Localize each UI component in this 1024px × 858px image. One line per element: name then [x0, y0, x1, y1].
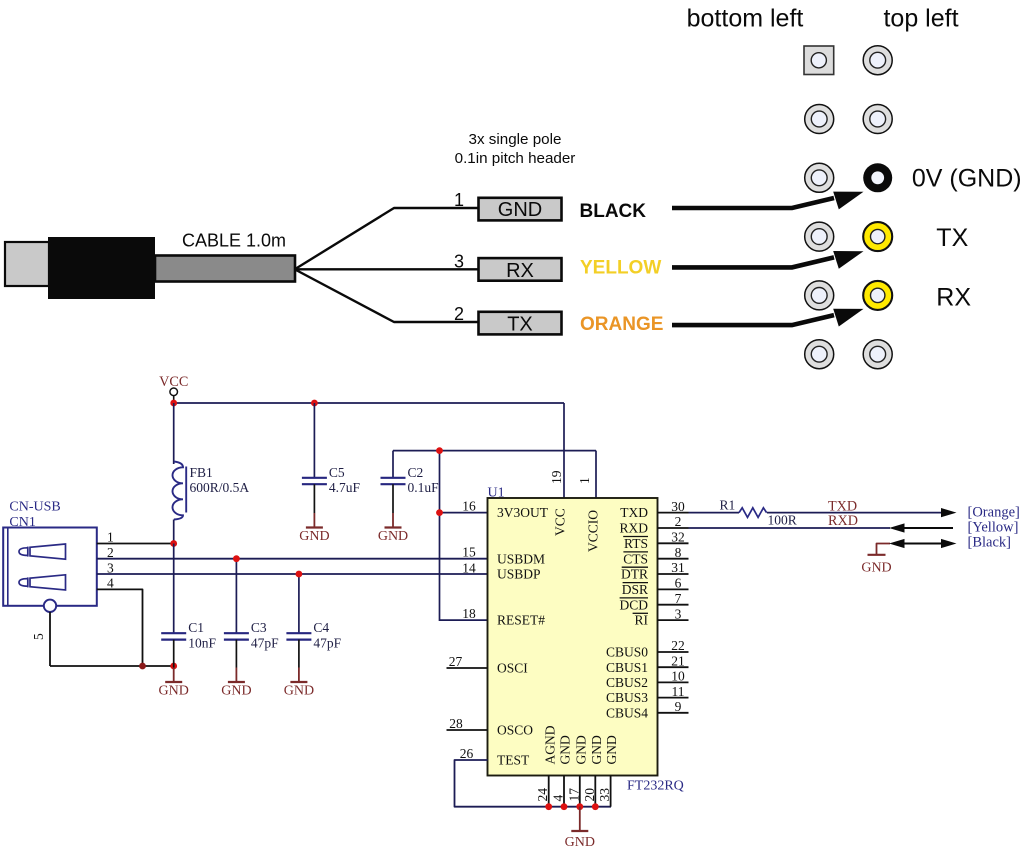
svg-text:CBUS1: CBUS1 — [606, 660, 648, 675]
svg-text:47pF: 47pF — [251, 635, 279, 650]
ground wire for [Black] — [877, 544, 891, 555]
svg-text:27: 27 — [449, 654, 463, 669]
pad bottom-left row 4 — [805, 222, 834, 251]
wire cable to header pin 2 (TX) — [296, 270, 479, 322]
pad top-left row 2 — [863, 105, 892, 134]
ground GND at U1 — [565, 807, 595, 850]
svg-text:CBUS3: CBUS3 — [606, 690, 648, 705]
junction pin4-gnd bus — [139, 663, 146, 670]
svg-text:GND: GND — [378, 529, 408, 544]
svg-text:31: 31 — [671, 560, 685, 575]
svg-text:VCCIO: VCCIO — [586, 510, 601, 552]
svg-text:GND: GND — [558, 735, 573, 764]
svg-text:GND: GND — [565, 835, 595, 850]
svg-text:1: 1 — [454, 190, 464, 210]
junction D- C3 — [233, 555, 240, 562]
power symbol VCC — [159, 374, 188, 403]
svg-text:CN-USB: CN-USB — [9, 500, 60, 515]
svg-text:U1: U1 — [488, 486, 505, 501]
U1 pin 10 stub — [658, 681, 689, 683]
svg-text:GND: GND — [159, 684, 189, 699]
wire C2 to VCCIO — [393, 450, 596, 452]
svg-text:RTS: RTS — [624, 536, 648, 551]
svg-text:10: 10 — [671, 669, 685, 684]
svg-text:CABLE 1.0m: CABLE 1.0m — [182, 231, 286, 251]
svg-text:14: 14 — [462, 560, 476, 575]
capacitor C4 — [286, 633, 311, 639]
pad bottom-left row 3 — [805, 163, 834, 192]
U1 pin 24 stub — [548, 776, 550, 807]
svg-text:GND: GND — [284, 684, 314, 699]
junction CN1 pin1 - FB1 - C1 — [170, 540, 177, 547]
svg-text:CBUS2: CBUS2 — [606, 675, 648, 690]
svg-text:RX: RX — [936, 284, 971, 312]
svg-text:OSCI: OSCI — [497, 661, 528, 676]
arrow orange wire to RX pad — [672, 309, 864, 327]
wire CN1 pin 4 down — [97, 589, 143, 666]
svg-text:C3: C3 — [251, 620, 267, 635]
junction VCC-C5 — [311, 400, 318, 407]
svg-text:600R/0.5A: 600R/0.5A — [190, 480, 250, 495]
svg-text:TX: TX — [936, 224, 968, 252]
IC U1 FT232RQ body — [488, 498, 658, 776]
svg-text:C1: C1 — [188, 620, 204, 635]
CN1 upper contact — [19, 544, 66, 559]
junction gnd bus - C1 — [170, 663, 177, 670]
svg-text:5: 5 — [31, 633, 46, 640]
svg-text:DSR: DSR — [622, 582, 648, 597]
ferrite bead FB1 — [173, 462, 187, 520]
junction 3V3OUT — [436, 509, 443, 516]
svg-text:2: 2 — [675, 514, 682, 529]
U1 pin OSCI stub — [447, 667, 488, 669]
U1 pin 7 stub — [658, 604, 689, 606]
pad 0V (GND) black — [863, 163, 892, 192]
wire ground bus CN1 — [50, 665, 174, 667]
U1 pin 20 stub — [594, 776, 596, 807]
svg-text:FB1: FB1 — [190, 465, 213, 480]
svg-text:1: 1 — [107, 530, 114, 545]
ground rail junction 17 — [576, 803, 583, 810]
svg-text:OSCO: OSCO — [497, 723, 533, 738]
svg-text:TXD: TXD — [620, 505, 648, 520]
svg-text:3V3OUT: 3V3OUT — [497, 505, 549, 520]
CN1 lower contact — [19, 575, 66, 590]
svg-text:18: 18 — [462, 606, 476, 621]
svg-text:100R: 100R — [768, 513, 797, 528]
svg-text:top left: top left — [883, 5, 958, 33]
svg-text:C4: C4 — [313, 620, 329, 635]
svg-text:RXD: RXD — [619, 521, 648, 536]
capacitor C3 — [224, 633, 249, 639]
svg-text:7: 7 — [675, 591, 682, 606]
ground GND at C5 — [299, 513, 329, 544]
svg-text:10nF: 10nF — [188, 635, 216, 650]
svg-text:RX: RX — [506, 260, 534, 282]
pad bottom-left row 2 — [805, 105, 834, 134]
header terminal RX — [479, 258, 562, 282]
svg-text:CN1: CN1 — [9, 515, 35, 530]
svg-text:AGND: AGND — [542, 725, 557, 764]
pad top-left row 6 — [863, 340, 892, 369]
svg-text:3: 3 — [107, 560, 114, 575]
wire VCCIO pin 1 drop — [595, 451, 597, 498]
header terminal TX — [479, 312, 562, 336]
U1 pin 3 stub — [658, 619, 689, 621]
svg-text:[Black]: [Black] — [968, 535, 1011, 551]
U1 pin 11 stub — [658, 697, 689, 699]
svg-text:DCD: DCD — [619, 597, 648, 612]
U1 pin 21 stub — [658, 666, 689, 668]
U1 pin 31 stub — [658, 573, 689, 575]
svg-text:RI: RI — [635, 613, 649, 628]
wire C3 to ground — [235, 640, 237, 668]
svg-text:47pF: 47pF — [313, 635, 341, 650]
wire TXD to R1 — [689, 512, 740, 514]
wire RXD — [689, 527, 891, 529]
U1 pin 32 stub — [658, 542, 689, 544]
wire VCC rail — [174, 402, 564, 404]
svg-text:RESET#: RESET# — [497, 613, 545, 628]
arrow yellow wire to TX pad — [672, 251, 864, 269]
svg-text:CBUS4: CBUS4 — [606, 705, 648, 720]
svg-text:TEST: TEST — [497, 753, 530, 768]
arrow RXD in — [889, 523, 953, 532]
wire VCC to FB1 — [173, 403, 175, 464]
connector CN1 (CN-USB) — [3, 528, 97, 606]
svg-text:TXD: TXD — [828, 499, 857, 515]
svg-text:GND: GND — [861, 561, 891, 576]
wire R1 to TXD arrow — [767, 512, 944, 514]
U1 pin 9 stub — [658, 712, 689, 714]
svg-text:1: 1 — [577, 477, 592, 484]
wire VCC pin 19 drop — [563, 403, 565, 498]
arrow black wire (bidirectional) — [889, 539, 957, 548]
U1 pin 30 stub (TXD) — [658, 512, 689, 514]
svg-text:YELLOW: YELLOW — [580, 258, 661, 279]
U1 pin name RI — [633, 613, 649, 628]
cable sheath — [155, 256, 295, 282]
svg-text:28: 28 — [449, 716, 463, 731]
wire cable to header pin 3 (RX) — [296, 268, 479, 270]
svg-text:3: 3 — [675, 606, 682, 621]
svg-text:GND: GND — [573, 735, 588, 764]
svg-text:3: 3 — [454, 251, 464, 271]
capacitor C1 — [161, 633, 186, 639]
svg-text:GND: GND — [589, 735, 604, 764]
svg-text:8: 8 — [675, 545, 682, 560]
svg-text:USBDM: USBDM — [497, 551, 545, 566]
svg-text:4.7uF: 4.7uF — [329, 480, 361, 495]
U1 pin 22 stub — [658, 651, 689, 653]
U1 pin 33 stub — [610, 776, 612, 807]
svg-text:TX: TX — [507, 314, 533, 336]
svg-text:4: 4 — [107, 576, 114, 591]
U1 pin 4 stub — [563, 776, 565, 807]
svg-text:GND: GND — [299, 529, 329, 544]
header terminal GND — [479, 198, 562, 221]
wire C2 to ground — [392, 484, 394, 513]
wire C1 lead — [173, 544, 175, 634]
svg-text:BLACK: BLACK — [580, 201, 647, 222]
svg-text:9: 9 — [675, 699, 682, 714]
svg-text:2: 2 — [107, 545, 114, 560]
U1 pin OSCO stub — [447, 729, 488, 731]
U1 pin name DCD — [619, 597, 648, 612]
pad square pin 1 bottom-left — [804, 46, 834, 75]
svg-text:0V (GND): 0V (GND) — [912, 165, 1022, 193]
U1 pin name DTR — [621, 567, 648, 582]
svg-text:15: 15 — [462, 545, 476, 560]
resistor R1 — [739, 508, 767, 518]
svg-text:30: 30 — [671, 499, 685, 514]
wire C5 to ground — [313, 484, 315, 513]
wire 3V3OUT vertical — [439, 451, 441, 621]
wire C1 to ground bus — [173, 640, 175, 668]
ground GND at C2 — [378, 513, 408, 544]
ground rail junction 4 — [561, 803, 568, 810]
svg-text:USBDP: USBDP — [497, 567, 541, 582]
svg-text:DTR: DTR — [621, 567, 648, 582]
arrow TXD out — [941, 508, 957, 517]
svg-text:16: 16 — [462, 499, 476, 514]
ground rail junction 24 — [545, 803, 552, 810]
ground GND at C3 — [221, 668, 251, 699]
wire TEST to ground rail — [455, 760, 612, 807]
wire RESET# pin 18 stub — [440, 619, 488, 621]
svg-text:R1: R1 — [720, 497, 736, 512]
capacitor C2 — [381, 478, 406, 484]
svg-text:[Yellow]: [Yellow] — [968, 520, 1019, 536]
ground GND at C4 — [284, 668, 314, 699]
svg-text:19: 19 — [549, 470, 564, 484]
svg-text:32: 32 — [671, 530, 685, 545]
CN1 shield circle pin 5 — [44, 600, 56, 612]
svg-text:C5: C5 — [329, 465, 345, 480]
pad bottom-left row 6 — [805, 340, 834, 369]
wire FB1 to CN1 pin 1 — [173, 520, 175, 544]
svg-text:CBUS0: CBUS0 — [606, 645, 648, 660]
svg-text:0.1uF: 0.1uF — [408, 480, 440, 495]
U1 pin name RTS — [623, 536, 648, 551]
svg-text:bottom left: bottom left — [687, 5, 804, 33]
wire rail to C5 — [313, 403, 315, 478]
wire C3 lead — [235, 559, 237, 634]
svg-text:26: 26 — [460, 746, 474, 761]
pad RX yellow — [863, 281, 892, 310]
U1 pin name CTS — [623, 551, 648, 566]
junction VCC-FB1 — [170, 400, 177, 407]
U1 pin 8 stub — [658, 558, 689, 560]
svg-text:GND: GND — [221, 684, 251, 699]
U1 pin 17 stub — [579, 776, 581, 807]
ground GND at C1 — [159, 668, 189, 699]
wire CN1 pin 5 down — [49, 612, 51, 666]
wire USB D+ (pin 3 to USBDP) — [97, 573, 488, 575]
capacitor C5 — [302, 478, 327, 484]
wire cable to header pin 1 (GND) — [296, 208, 479, 269]
svg-text:RXD: RXD — [828, 513, 858, 529]
U1 pin 2 stub (RXD) — [658, 527, 689, 529]
svg-text:0.1in pitch header: 0.1in pitch header — [455, 150, 576, 167]
svg-text:CTS: CTS — [623, 551, 648, 566]
U1 pin 6 stub — [658, 588, 689, 590]
junction C2 line - 3V3OUT — [436, 447, 443, 454]
U1 pin name DSR — [622, 582, 648, 597]
wire USB D- (pin 2 to USBDM) — [97, 558, 488, 560]
svg-text:21: 21 — [671, 653, 685, 668]
note 3x single pole 0.1in pitch header — [455, 131, 576, 167]
svg-text:2: 2 — [454, 304, 464, 324]
ground rail junction 20 — [592, 803, 599, 810]
USB plug metal shell — [5, 242, 49, 286]
USB plug overmold body — [48, 237, 155, 299]
svg-text:GND: GND — [604, 735, 619, 764]
ground GND at serial black wire — [861, 555, 891, 576]
svg-text:VCC: VCC — [553, 508, 568, 536]
svg-text:FT232RQ: FT232RQ — [627, 779, 684, 794]
wire CN1 pin 1 to FB1 — [97, 543, 174, 545]
pad bottom-left row 5 — [805, 281, 834, 310]
svg-text:C2: C2 — [408, 465, 424, 480]
svg-text:11: 11 — [672, 684, 685, 699]
junction D+ C4 — [296, 571, 303, 578]
svg-text:GND: GND — [498, 199, 542, 221]
pad top-left row 1 — [863, 46, 892, 75]
pad TX yellow — [863, 222, 892, 251]
svg-text:22: 22 — [671, 638, 685, 653]
wire C4 to ground — [298, 640, 300, 668]
arrow black wire to 0V pad — [672, 192, 864, 210]
svg-text:ORANGE: ORANGE — [580, 314, 663, 335]
svg-text:3x single pole: 3x single pole — [469, 131, 562, 148]
svg-text:6: 6 — [675, 576, 682, 591]
svg-text:[Orange]: [Orange] — [968, 505, 1020, 521]
wire 3V3OUT pin 16 stub — [440, 512, 488, 514]
wire C2 lead — [392, 451, 394, 478]
wire C4 lead — [298, 574, 300, 633]
